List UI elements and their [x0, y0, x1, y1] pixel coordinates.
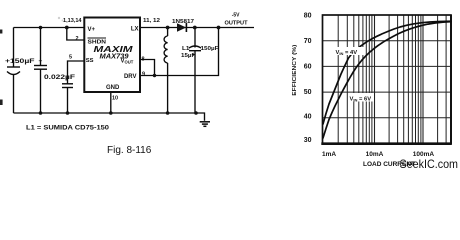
svg-text:70: 70: [304, 38, 312, 45]
svg-text:SeekIC.com: SeekIC.com: [400, 157, 459, 171]
svg-text:L1: L1: [182, 46, 190, 52]
svg-text:LX: LX: [131, 26, 139, 32]
svg-text:2: 2: [76, 36, 79, 42]
svg-text:80: 80: [304, 12, 312, 19]
svg-text:10mA: 10mA: [366, 151, 384, 158]
svg-text:L1 = SUMIDA CD75-150: L1 = SUMIDA CD75-150: [26, 125, 110, 131]
svg-text:+: +: [39, 58, 43, 65]
svg-text:VIN = 4V: VIN = 4V: [336, 50, 358, 56]
svg-text:+: +: [192, 53, 196, 59]
svg-text:SS: SS: [86, 58, 94, 64]
svg-text:150µF: 150µF: [201, 46, 220, 52]
svg-text:GND: GND: [106, 85, 120, 91]
svg-text:OUTPUT: OUTPUT: [225, 20, 249, 26]
svg-text:+150µF: +150µF: [5, 59, 35, 65]
svg-text:11, 12: 11, 12: [143, 18, 160, 24]
svg-text:1,13,14: 1,13,14: [63, 18, 82, 24]
svg-text:VIN = 6V: VIN = 6V: [350, 96, 372, 102]
svg-text:1N5817: 1N5817: [172, 19, 194, 25]
svg-text:VOUT: VOUT: [121, 59, 134, 65]
svg-text:5: 5: [69, 55, 72, 61]
svg-text:40: 40: [304, 113, 312, 120]
svg-text:EFFICIENCY (%): EFFICIENCY (%): [292, 45, 298, 96]
svg-text:Fig. 8-116: Fig. 8-116: [107, 145, 152, 156]
svg-text:30: 30: [304, 137, 312, 144]
svg-text:V+: V+: [88, 27, 96, 33]
svg-text:9: 9: [142, 71, 145, 77]
svg-text:1mA: 1mA: [322, 151, 336, 158]
svg-text:60: 60: [304, 63, 312, 70]
svg-text:-5V: -5V: [232, 12, 240, 18]
svg-text:0.022µF: 0.022µF: [44, 75, 75, 81]
svg-text:10: 10: [112, 96, 118, 102]
svg-text:DRV: DRV: [124, 74, 137, 80]
svg-text:50: 50: [304, 89, 312, 96]
svg-text:8: 8: [142, 57, 145, 63]
